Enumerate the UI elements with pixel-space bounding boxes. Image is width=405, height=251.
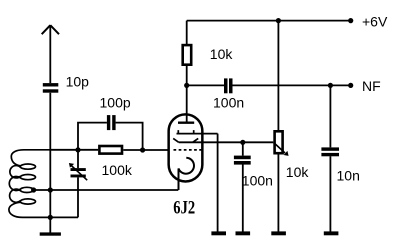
wire NF line: [187, 84, 351, 86]
svg-text:6J2: 6J2: [173, 198, 195, 219]
node +6V terminal: [348, 18, 353, 23]
node coil tap junction: [31, 187, 36, 192]
wire 100p branch: [78, 123, 143, 150]
tube anode plate: [178, 121, 194, 123]
node NF terminal: [348, 83, 353, 88]
wire g2 to pot: [179, 141, 274, 143]
antenna: [42, 25, 59, 34]
capacitor C 100p: [107, 115, 116, 130]
node NF/10n junction: [328, 83, 333, 88]
capacitor C 100n screen: [234, 142, 251, 231]
wire antenna to 10p: [49, 25, 51, 83]
capacitor C 10n: [321, 85, 339, 231]
svg-text:10k: 10k: [210, 46, 234, 62]
node bottom-line junction: [48, 215, 53, 220]
potentiometer R 10k: [274, 131, 289, 156]
inductor L1 coil: [9, 150, 50, 218]
wire g3 to ground: [217, 134, 219, 232]
tube grid g3 with ticks: [177, 130, 218, 134]
ground stub 10n: [324, 231, 339, 235]
svg-text:100n: 100n: [213, 94, 244, 110]
svg-text:100p: 100p: [100, 94, 131, 110]
wire coil bottom line: [23, 216, 79, 218]
node anode/10k/100n junction: [184, 83, 189, 88]
node antenna/tap junction: [48, 187, 53, 192]
svg-text:10p: 10p: [66, 74, 90, 90]
ground stub 100n: [236, 231, 251, 235]
wire anode lead up: [186, 85, 188, 122]
svg-text:+6V: +6V: [362, 14, 388, 30]
node junction coil-top/varcap/100p/100k: [75, 147, 80, 152]
node pot/+6V junction: [276, 18, 281, 23]
svg-text:10n: 10n: [337, 168, 360, 184]
tube 6J2 envelope: [169, 114, 203, 181]
wire 10p down to ground through tap: [49, 93, 51, 233]
wire pot bottom lead: [277, 155, 279, 232]
resistor R 100k: [99, 146, 122, 154]
svg-text:10k: 10k: [286, 164, 310, 180]
wire pot top lead: [277, 21, 279, 130]
wire coil top lead row: [50, 149, 167, 151]
ground stub pot: [271, 231, 286, 235]
svg-text:NF: NF: [362, 78, 381, 94]
svg-text:100k: 100k: [102, 162, 133, 178]
tube grid g2 with wings: [173, 138, 198, 142]
ground stub g3: [211, 231, 226, 235]
ground (left): [40, 232, 61, 235]
svg-text:100n: 100n: [242, 173, 273, 189]
tube grid g1 dashed: [174, 149, 204, 151]
tube cathode: [179, 158, 194, 190]
capacitor C variable (trimmer): [69, 150, 87, 218]
wire +6V rail: [187, 20, 351, 22]
wire tap line to cathode: [34, 189, 179, 191]
node g2/100n junction: [240, 140, 245, 145]
resistor R 10k anode: [183, 21, 192, 86]
node junction 100k/100p/g1: [140, 147, 145, 152]
capacitor C 100n coupling: [224, 78, 233, 93]
capacitor C 10p: [43, 83, 59, 93]
